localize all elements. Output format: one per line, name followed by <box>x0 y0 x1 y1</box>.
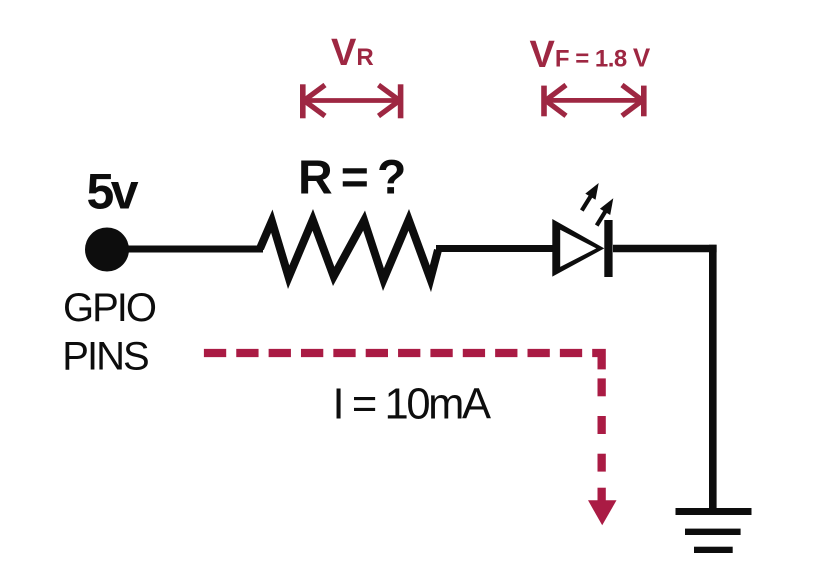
svg-text:I = 10mA: I = 10mA <box>333 381 491 429</box>
dimension arrow VR (red double arrow with end bars) <box>303 84 401 118</box>
wire: node to resistor <box>112 246 263 253</box>
svg-text:5v: 5v <box>87 164 139 220</box>
node: 5V GPIO pin (filled circle) <box>85 228 129 272</box>
svg-text:R = ?: R = ? <box>298 152 404 205</box>
wire: resistor to LED <box>436 245 555 252</box>
resistor R (zigzag) <box>256 209 442 292</box>
current path: arrowhead (red) <box>588 500 617 525</box>
LED D1: triangle (anode) <box>552 219 604 277</box>
LED light arrow 2 <box>597 198 614 225</box>
ground (3 bars) <box>676 508 752 553</box>
current path: horizontal dashed line (red) <box>204 349 582 357</box>
wire: LED cathode to corner <box>613 245 717 253</box>
dimension arrow VF (red double arrow with end bars) <box>544 85 644 116</box>
LED light arrow 1 <box>582 183 599 211</box>
LED D1: cathode bar <box>604 220 612 277</box>
current path: vertical dashes (red) <box>598 378 606 503</box>
current path: corner dash (red) <box>592 353 601 369</box>
wire: corner down to ground <box>709 245 717 512</box>
svg-text:PINS: PINS <box>62 335 148 379</box>
svg-text:GPIO: GPIO <box>63 286 156 330</box>
